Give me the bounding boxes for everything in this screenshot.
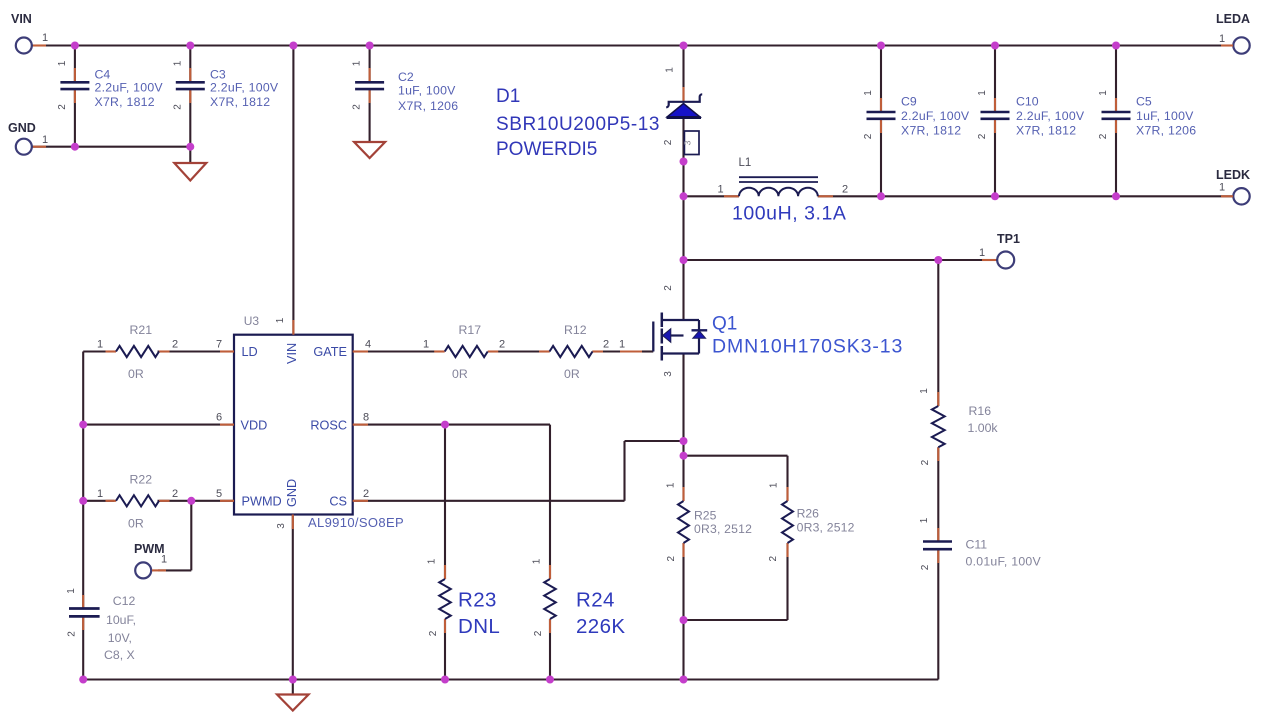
svg-text:2: 2	[1098, 133, 1109, 139]
svg-text:SBR10U200P5-13: SBR10U200P5-13	[496, 114, 660, 135]
C9 value label	[901, 109, 970, 138]
resistor R24	[544, 565, 556, 633]
svg-text:2: 2	[920, 459, 931, 465]
svg-text:2: 2	[57, 104, 68, 110]
svg-text:2: 2	[499, 339, 505, 351]
svg-text:1: 1	[66, 588, 77, 594]
D1 package pins 2-3 box	[684, 131, 699, 155]
junction node J10	[186, 143, 194, 151]
svg-text:1: 1	[97, 488, 103, 500]
capacitor C11	[923, 528, 952, 563]
capacitor C5	[1102, 98, 1131, 133]
junction node J8	[1112, 42, 1120, 50]
svg-text:C8, X: C8, X	[104, 648, 135, 662]
svg-text:7: 7	[216, 339, 222, 351]
junction node J15	[1112, 192, 1120, 200]
wire R23 riser	[444, 425, 446, 579]
resistor R22	[106, 495, 170, 506]
junction node J26	[441, 676, 449, 684]
wire bottom rail	[83, 678, 938, 680]
svg-text:2: 2	[352, 104, 363, 110]
svg-text:X7R, 1812: X7R, 1812	[210, 95, 270, 109]
svg-text:3: 3	[663, 371, 674, 377]
svg-text:TP1: TP1	[997, 232, 1020, 246]
junction node J27	[546, 676, 554, 684]
svg-text:R23: R23	[458, 589, 497, 612]
svg-text:DMN10H170SK3-13: DMN10H170SK3-13	[712, 336, 903, 358]
wire GND rail	[32, 146, 190, 148]
wire U3 GND riser	[292, 515, 294, 680]
svg-text:1.00k: 1.00k	[968, 421, 999, 435]
junction node J28	[680, 676, 688, 684]
wire switch node down to Q1 drain	[682, 196, 684, 260]
svg-text:1: 1	[977, 90, 988, 96]
svg-text:PWMD: PWMD	[242, 495, 282, 509]
svg-text:C2: C2	[398, 70, 414, 84]
port GND	[16, 139, 46, 155]
junction node J4	[366, 42, 374, 50]
junction node J22	[680, 437, 688, 445]
wire VDD net	[83, 424, 234, 426]
capacitor C12	[69, 595, 100, 630]
svg-text:4: 4	[365, 339, 371, 351]
svg-text:PWM: PWM	[134, 542, 165, 556]
svg-text:C12: C12	[113, 594, 136, 608]
svg-text:ROSC: ROSC	[310, 419, 347, 433]
svg-text:2: 2	[172, 104, 183, 110]
svg-text:R21: R21	[130, 323, 153, 337]
svg-text:1: 1	[42, 134, 48, 146]
wire C3 riser	[189, 46, 191, 83]
svg-text:R12: R12	[564, 323, 587, 337]
svg-text:1uF, 100V: 1uF, 100V	[398, 84, 456, 98]
wire Q1 source column	[682, 354, 684, 456]
svg-text:DNL: DNL	[458, 615, 500, 638]
wire C5 riser	[1115, 46, 1117, 113]
svg-text:1: 1	[1219, 33, 1225, 45]
svg-text:1: 1	[979, 247, 985, 259]
svg-text:X7R, 1812: X7R, 1812	[901, 124, 961, 138]
svg-text:R25: R25	[694, 509, 717, 523]
svg-text:C5: C5	[1136, 95, 1152, 109]
svg-text:1: 1	[352, 60, 363, 66]
C2 value label	[398, 84, 458, 114]
junction node J19	[441, 421, 449, 429]
svg-text:0R: 0R	[128, 516, 144, 530]
svg-text:2.2uF, 100V: 2.2uF, 100V	[210, 81, 279, 95]
svg-text:1: 1	[1098, 90, 1109, 96]
svg-text:5: 5	[216, 488, 222, 500]
svg-text:0R3, 2512: 0R3, 2512	[797, 521, 855, 535]
svg-text:1: 1	[718, 184, 724, 196]
svg-text:1: 1	[532, 558, 543, 564]
wire C10 riser	[994, 46, 996, 113]
junction node J2	[186, 42, 194, 50]
svg-text:2: 2	[977, 133, 988, 139]
wire R16-C11 column	[937, 260, 939, 406]
svg-text:0R: 0R	[564, 367, 580, 381]
svg-text:VIN: VIN	[11, 12, 32, 26]
svg-text:8: 8	[363, 412, 369, 424]
svg-text:2: 2	[842, 184, 848, 196]
C5 value label	[1136, 109, 1196, 138]
junction node J13	[877, 192, 885, 200]
svg-text:2: 2	[666, 555, 677, 561]
transistor Q1	[620, 313, 707, 361]
svg-text:1: 1	[666, 482, 677, 488]
svg-text:2: 2	[603, 339, 609, 351]
svg-text:GATE: GATE	[313, 345, 347, 359]
svg-text:1: 1	[769, 482, 780, 488]
svg-text:C3: C3	[210, 68, 226, 82]
svg-text:C11: C11	[966, 538, 988, 552]
svg-text:X7R, 1812: X7R, 1812	[1016, 124, 1076, 138]
wire R26 bottom branch	[786, 543, 788, 620]
wire CS net	[353, 500, 625, 502]
junction node J18	[79, 421, 87, 429]
ground under C2	[354, 142, 385, 158]
resistor R12	[539, 346, 603, 357]
svg-text:1: 1	[161, 554, 167, 566]
resistor R26	[782, 487, 793, 557]
svg-text:LEDK: LEDK	[1216, 168, 1250, 182]
svg-text:2: 2	[920, 564, 931, 570]
svg-text:POWERDI5: POWERDI5	[496, 139, 597, 160]
wire left rail	[82, 352, 84, 609]
svg-text:1: 1	[619, 339, 625, 351]
wire ROSC net	[353, 424, 550, 426]
junction node J1	[71, 42, 79, 50]
svg-text:2: 2	[67, 631, 78, 637]
junction node J11	[680, 158, 688, 166]
svg-text:2: 2	[533, 630, 544, 636]
ground under C3	[174, 163, 206, 181]
svg-text:VDD: VDD	[241, 419, 268, 433]
svg-text:X7R, 1206: X7R, 1206	[398, 99, 458, 113]
port VIN	[16, 38, 46, 54]
svg-text:1: 1	[275, 317, 286, 323]
svg-text:C9: C9	[901, 95, 917, 109]
svg-text:0R3, 2512: 0R3, 2512	[694, 522, 752, 536]
wire TP1 rail	[684, 259, 939, 261]
junction node J7	[991, 42, 999, 50]
junction node J16	[680, 256, 688, 264]
svg-text:C4: C4	[95, 68, 111, 82]
svg-text:1: 1	[57, 60, 68, 66]
svg-text:R16: R16	[969, 404, 992, 418]
svg-text:VIN: VIN	[285, 343, 299, 364]
svg-text:226K: 226K	[576, 615, 625, 638]
capacitor C10	[981, 98, 1010, 133]
svg-text:R17: R17	[459, 323, 482, 337]
wire LEDK rail	[684, 195, 740, 197]
C3 value label	[210, 81, 279, 110]
svg-text:X7R, 1206: X7R, 1206	[1136, 124, 1196, 138]
svg-text:2: 2	[663, 139, 674, 145]
svg-text:X7R, 1812: X7R, 1812	[95, 95, 155, 109]
capacitor C9	[867, 98, 896, 133]
svg-text:1: 1	[919, 388, 930, 394]
svg-text:L1: L1	[739, 157, 752, 169]
svg-text:100uH, 3.1A: 100uH, 3.1A	[732, 203, 846, 225]
svg-text:LD: LD	[242, 345, 258, 359]
svg-text:2.2uF, 100V: 2.2uF, 100V	[95, 81, 164, 95]
svg-text:U3: U3	[244, 314, 260, 328]
svg-text:1: 1	[863, 90, 874, 96]
junction node J5	[680, 42, 688, 50]
svg-text:2: 2	[863, 133, 874, 139]
capacitor C3	[176, 68, 205, 103]
C4 value label	[95, 81, 164, 110]
wire LD net	[83, 350, 114, 352]
svg-text:GND: GND	[8, 121, 36, 135]
svg-text:1: 1	[97, 339, 103, 351]
resistor R16	[932, 392, 945, 461]
svg-text:6: 6	[216, 412, 222, 424]
wire R24 lower riser	[549, 619, 551, 680]
junction node J20	[79, 497, 87, 505]
svg-text:2.2uF, 100V: 2.2uF, 100V	[1016, 109, 1085, 123]
resistor R23	[439, 565, 451, 633]
svg-text:1: 1	[919, 517, 930, 523]
op-amp U3 AL9910 controller	[220, 320, 368, 529]
resistor R21	[106, 346, 170, 357]
svg-text:2: 2	[172, 488, 178, 500]
svg-text:3: 3	[276, 523, 287, 529]
junction node J17	[934, 256, 942, 264]
wire C4 riser	[74, 46, 76, 83]
port TP1	[982, 252, 1014, 269]
svg-text:C10: C10	[1016, 95, 1039, 109]
wire C9 riser	[880, 46, 882, 113]
svg-text:2: 2	[172, 339, 178, 351]
svg-text:2: 2	[768, 555, 779, 561]
svg-text:CS: CS	[329, 495, 347, 509]
svg-text:2.2uF, 100V: 2.2uF, 100V	[901, 109, 970, 123]
inductor L1	[724, 177, 833, 196]
svg-text:10uF,: 10uF,	[106, 613, 136, 627]
svg-text:R22: R22	[130, 472, 153, 486]
svg-text:1: 1	[172, 60, 183, 66]
svg-text:1: 1	[42, 32, 48, 44]
junction node J14	[991, 192, 999, 200]
wire R26 top branch	[684, 455, 788, 457]
junction node J21	[187, 497, 195, 505]
svg-text:0R: 0R	[128, 367, 144, 381]
port LEDK	[1221, 188, 1250, 204]
port LEDA	[1221, 37, 1250, 53]
wire U3 VIN riser	[292, 46, 294, 335]
capacitor C4	[60, 68, 89, 103]
svg-text:0.01uF, 100V: 0.01uF, 100V	[966, 555, 1042, 569]
junction node J29	[79, 676, 87, 684]
svg-text:R24: R24	[576, 589, 615, 612]
junction node J6	[877, 42, 885, 50]
wire D1 column	[682, 46, 684, 102]
svg-text:D1: D1	[496, 86, 520, 107]
svg-text:GND: GND	[285, 479, 299, 507]
svg-text:Q1: Q1	[712, 314, 737, 335]
junction node J25	[289, 676, 297, 684]
C12 value label	[104, 613, 136, 662]
svg-text:1: 1	[1219, 182, 1225, 194]
wire PWMD net	[83, 500, 114, 502]
junction node J24	[680, 616, 688, 624]
svg-text:3: 3	[683, 140, 693, 145]
wire C2 riser	[369, 46, 371, 83]
wire PWM branch	[190, 501, 192, 571]
svg-text:AL9910/SO8EP: AL9910/SO8EP	[308, 515, 404, 530]
svg-text:1uF, 100V: 1uF, 100V	[1136, 109, 1194, 123]
svg-text:2: 2	[363, 488, 369, 500]
resistor R25	[678, 487, 689, 557]
junction node J23	[680, 452, 688, 460]
svg-text:0R: 0R	[452, 367, 468, 381]
resistor R17	[434, 346, 498, 357]
D1 value label	[496, 114, 660, 160]
wire GATE net	[353, 350, 445, 352]
C10 value label	[1016, 109, 1085, 138]
svg-text:1: 1	[427, 558, 438, 564]
diode D1	[666, 87, 702, 118]
ground at bottom rail	[277, 695, 309, 711]
junction node J9	[71, 143, 79, 151]
wire VIN top rail	[32, 44, 1234, 46]
junction node J3	[289, 42, 297, 50]
svg-text:1: 1	[423, 339, 429, 351]
port PWM	[135, 562, 166, 578]
svg-text:LEDA: LEDA	[1216, 12, 1250, 26]
junction node J12	[680, 192, 688, 200]
capacitor C2	[355, 68, 384, 103]
svg-text:10V,: 10V,	[108, 631, 132, 645]
svg-text:R26: R26	[797, 507, 820, 521]
svg-text:2: 2	[663, 285, 674, 291]
svg-text:1: 1	[665, 67, 676, 73]
svg-text:2: 2	[428, 630, 439, 636]
